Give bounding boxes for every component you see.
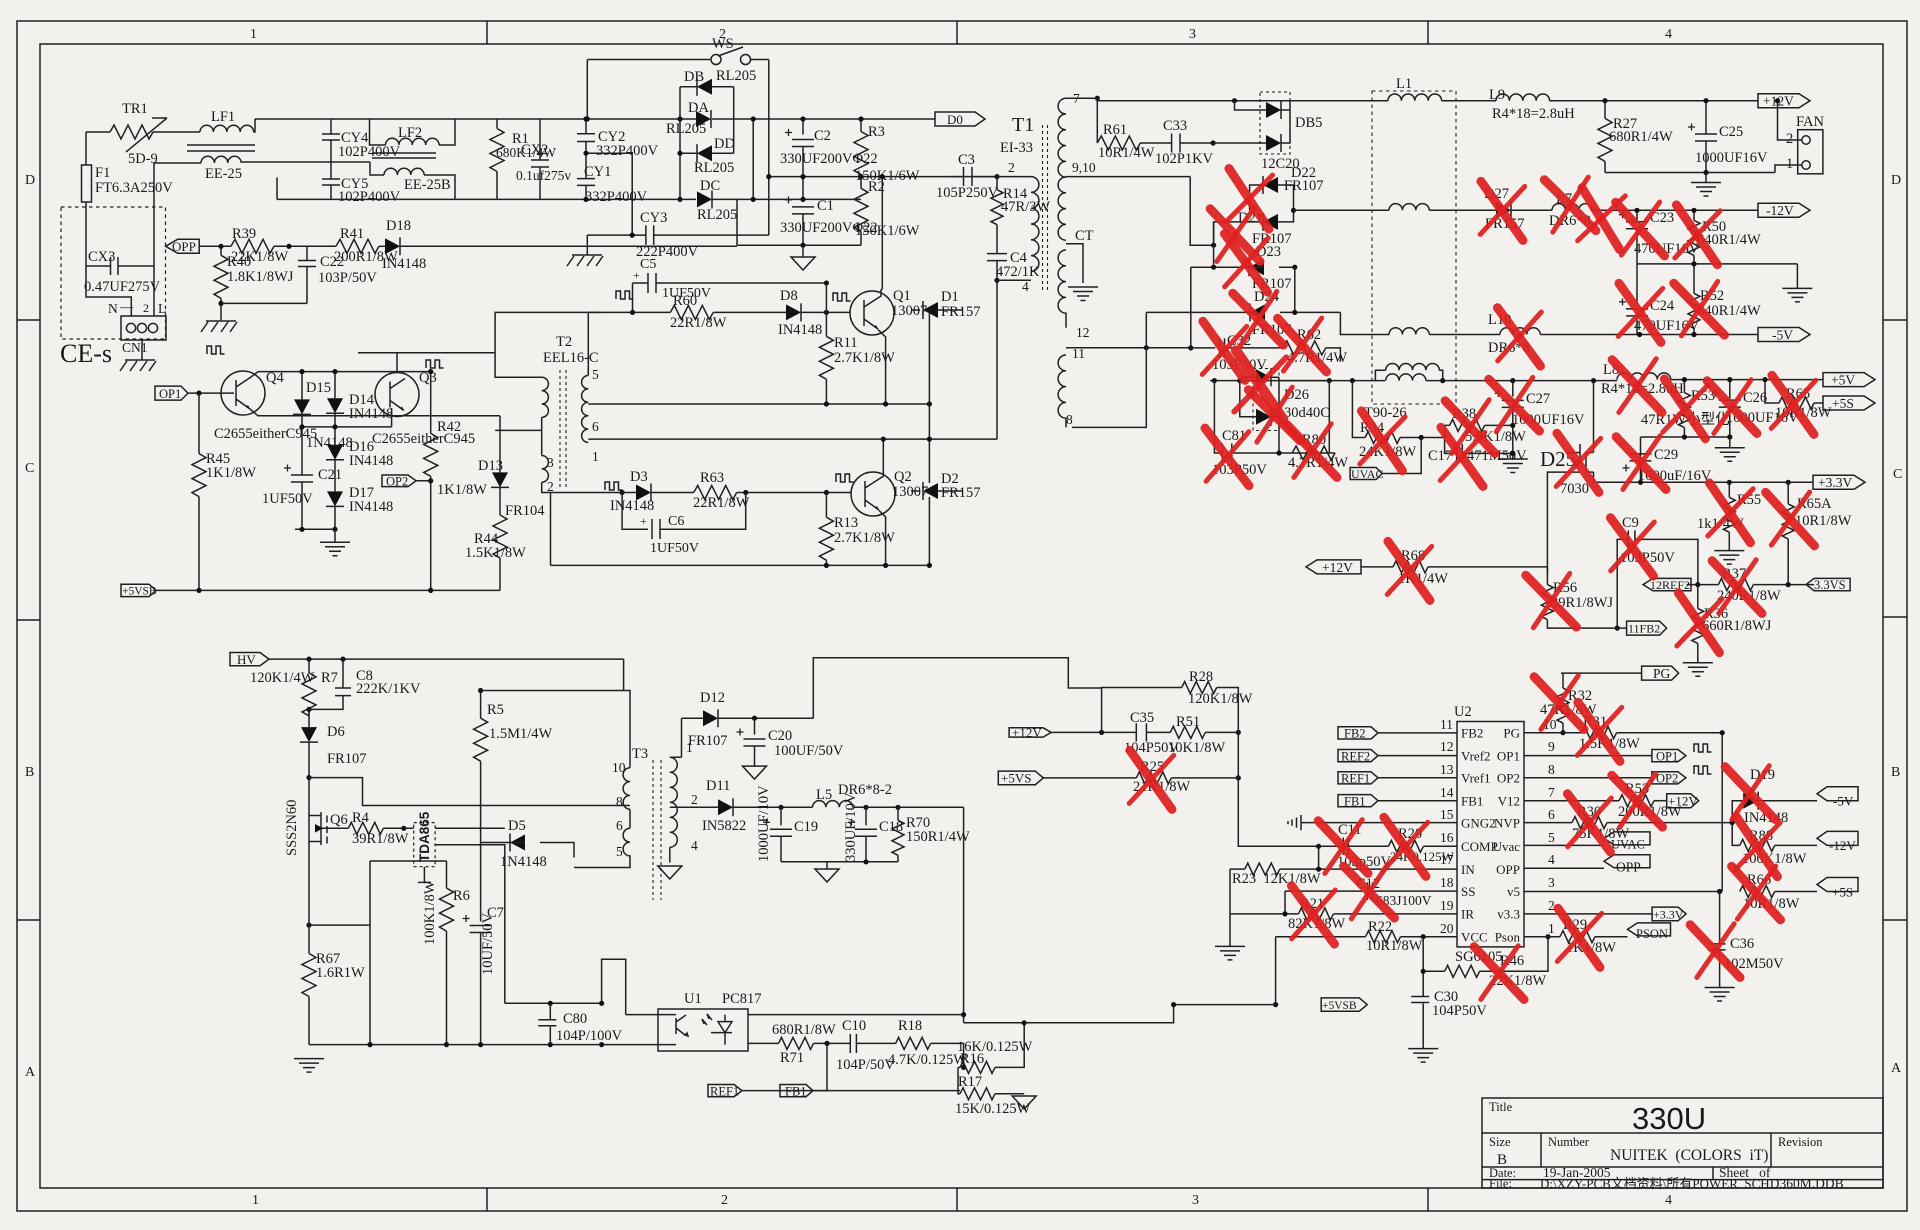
ground C20 bbox=[743, 766, 767, 779]
resistor R2 bbox=[860, 177, 862, 189]
svg-text:16: 16 bbox=[1440, 830, 1454, 845]
x-mark C23 bbox=[1616, 200, 1665, 258]
wire R63 to Q2 base bbox=[737, 492, 851, 494]
+12V rail bbox=[1549, 100, 1758, 102]
ground under D17 bbox=[334, 529, 336, 542]
x-mark D27 bbox=[1477, 181, 1527, 240]
resistor R60 bbox=[670, 305, 713, 319]
flag +5VSB bbox=[1321, 998, 1367, 1011]
svg-text:R71: R71 bbox=[780, 1050, 804, 1066]
diode D23 bbox=[1191, 266, 1247, 268]
cap C6 bbox=[622, 493, 746, 540]
ground CY3 bbox=[586, 235, 588, 255]
x-mark R37 bbox=[1712, 558, 1762, 617]
x-mark D24 bbox=[1233, 289, 1284, 349]
cap C80 bbox=[549, 1003, 551, 1019]
D25 reset path bbox=[1547, 472, 1568, 574]
svg-text:R3: R3 bbox=[868, 124, 885, 140]
resistor R40 bbox=[220, 246, 222, 255]
TDA865 fb row bbox=[435, 845, 505, 1004]
T1 pin4 stub bbox=[997, 279, 1031, 281]
svg-text:4: 4 bbox=[1665, 27, 1672, 42]
x-mark R34 bbox=[1357, 411, 1408, 471]
svg-text:REF2: REF2 bbox=[1341, 749, 1370, 763]
x-mark R36 bbox=[1674, 593, 1725, 653]
svg-text:File:: File: bbox=[1489, 1177, 1512, 1191]
inductor L10 bbox=[1500, 328, 1540, 335]
svg-text:+5VSB: +5VSB bbox=[1322, 1000, 1357, 1012]
cap CY3 bbox=[587, 225, 769, 245]
+5VSB routing bbox=[964, 807, 1025, 1023]
svg-text:IN4148: IN4148 bbox=[778, 322, 822, 338]
wire TR1 to LF1 bbox=[153, 131, 200, 133]
svg-text:680R1/4W: 680R1/4W bbox=[1609, 129, 1673, 145]
IC TDA865 dashed bbox=[414, 823, 435, 867]
dashed box CE-s bbox=[61, 207, 166, 339]
resistor R36 bbox=[1697, 585, 1699, 609]
svg-text:D5: D5 bbox=[508, 818, 526, 834]
resistor R23 bbox=[1230, 868, 1245, 870]
flag +5VSB left bbox=[121, 584, 156, 596]
svg-text:1K1/8W: 1K1/8W bbox=[206, 465, 256, 481]
resistor R68 bbox=[1361, 566, 1393, 568]
x-mark C17 bbox=[1437, 427, 1487, 486]
L1 winding -12V bbox=[1389, 204, 1429, 211]
svg-text:C17: C17 bbox=[1428, 448, 1452, 464]
HV wire bbox=[269, 658, 624, 660]
svg-text:OPP: OPP bbox=[1496, 862, 1520, 877]
diode DD bbox=[680, 152, 697, 154]
svg-text:OP2: OP2 bbox=[1656, 772, 1678, 786]
cap C19 bbox=[780, 807, 782, 825]
LF2 core bars bbox=[372, 153, 436, 158]
lower +12 rail bbox=[1605, 172, 1775, 174]
flag +5VS bbox=[998, 771, 1043, 785]
svg-text:D1: D1 bbox=[941, 289, 959, 305]
svg-text:330UF200VΦ22: 330UF200VΦ22 bbox=[780, 151, 878, 167]
x-mark R65A bbox=[1766, 490, 1815, 548]
svg-text:CX2: CX2 bbox=[521, 142, 548, 158]
resistor R63 bbox=[694, 486, 737, 500]
svg-text:5: 5 bbox=[616, 844, 623, 859]
svg-text:FR107: FR107 bbox=[1284, 178, 1324, 194]
svg-text:150R1/4W: 150R1/4W bbox=[906, 829, 970, 845]
svg-text:12REF2: 12REF2 bbox=[1650, 578, 1690, 592]
svg-text:1000UF16V: 1000UF16V bbox=[1695, 150, 1768, 166]
svg-text:47R/3W: 47R/3W bbox=[1001, 199, 1050, 215]
svg-text:IN4148: IN4148 bbox=[349, 453, 393, 469]
svg-text:IN: IN bbox=[1461, 862, 1475, 877]
svg-text:8: 8 bbox=[616, 794, 623, 809]
svg-text:0.1uf275v: 0.1uf275v bbox=[516, 168, 571, 183]
T1 CT tap bbox=[1066, 244, 1083, 283]
FAN pin1 wire bbox=[1775, 165, 1802, 173]
LF1/EE-25 core bars bbox=[187, 145, 255, 151]
svg-text:L: L bbox=[158, 301, 166, 316]
T1 pin11/12 wire bbox=[1066, 347, 1191, 349]
right PG bus bbox=[1721, 733, 1723, 892]
svg-text:R61: R61 bbox=[1103, 122, 1127, 138]
svg-text:+3.3V: +3.3V bbox=[1653, 907, 1684, 921]
svg-text:CE-s: CE-s bbox=[60, 339, 112, 368]
flag OPP bbox=[166, 239, 200, 253]
svg-text:1.5M1/4W: 1.5M1/4W bbox=[489, 726, 553, 742]
diode DC bbox=[697, 190, 712, 208]
svg-text:+12V: +12V bbox=[1012, 725, 1042, 740]
cap C18 bbox=[865, 807, 867, 825]
T3 secondary 1-2-4 bbox=[670, 718, 682, 757]
svg-text:-5V: -5V bbox=[1772, 328, 1793, 343]
svg-text:FR157: FR157 bbox=[941, 304, 981, 320]
x-mark L7 bbox=[1544, 175, 1596, 236]
svg-text:120K1/8W: 120K1/8W bbox=[1188, 691, 1253, 707]
svg-text:A: A bbox=[25, 1065, 36, 1080]
svg-text:4: 4 bbox=[1548, 852, 1555, 867]
diode D11 bbox=[689, 806, 718, 808]
x-mark R29 bbox=[1554, 908, 1604, 967]
svg-text:+: + bbox=[640, 514, 647, 528]
bottom rail standby bbox=[309, 1044, 658, 1046]
svg-text:14: 14 bbox=[1440, 785, 1454, 800]
svg-text:D0: D0 bbox=[947, 112, 963, 127]
x-mark R46 bbox=[1474, 944, 1524, 1003]
svg-text:R17: R17 bbox=[958, 1074, 982, 1090]
ground under R55 bbox=[1714, 551, 1744, 565]
diode D15 bbox=[301, 372, 303, 400]
inductor EE-25 bbox=[201, 156, 241, 163]
svg-text:3: 3 bbox=[1548, 875, 1555, 890]
flag REF2 bbox=[1338, 750, 1457, 762]
resistor R71 bbox=[779, 1037, 814, 1049]
MOSFET Q6 bbox=[309, 778, 348, 926]
bus D21-D23 bbox=[1213, 222, 1215, 267]
R22 to +5VSB bbox=[1275, 937, 1277, 1005]
diode DA bbox=[696, 110, 711, 128]
svg-text:R18: R18 bbox=[898, 1018, 922, 1034]
pin7 V12 / resistor R53b bbox=[1524, 800, 1619, 802]
optocoupler U1 PC817 bbox=[658, 1009, 748, 1051]
resistor R28 bbox=[1102, 688, 1182, 733]
Q2 collector wire bbox=[882, 439, 883, 477]
svg-text:B: B bbox=[25, 765, 34, 780]
svg-text:1.6R1W: 1.6R1W bbox=[316, 965, 365, 981]
svg-text:REF1: REF1 bbox=[710, 1085, 739, 1099]
T1 winding 11-8 bbox=[1058, 355, 1066, 427]
svg-text:2: 2 bbox=[1008, 160, 1015, 175]
pin9 OP1 flag bbox=[1524, 750, 1686, 762]
svg-text:2: 2 bbox=[721, 1193, 728, 1208]
wire WS left vertical bbox=[586, 60, 588, 120]
svg-text:R42: R42 bbox=[437, 419, 461, 435]
svg-text:R22: R22 bbox=[1368, 919, 1392, 935]
resistor R34 bbox=[1352, 381, 1365, 438]
svg-text:10: 10 bbox=[612, 760, 626, 775]
wire EE-25 left to CN1 line bbox=[154, 162, 201, 164]
TDA865 gnd row bbox=[370, 860, 447, 862]
transistor Q1 bbox=[850, 291, 894, 335]
D12 to +12 feed bbox=[813, 658, 1101, 718]
svg-text:F1: F1 bbox=[95, 165, 110, 181]
inductor LF1 bbox=[200, 125, 254, 132]
svg-text:2: 2 bbox=[1548, 898, 1555, 913]
ground triangle rail bbox=[826, 862, 828, 869]
svg-text:5: 5 bbox=[592, 367, 599, 382]
svg-text:Q6: Q6 bbox=[330, 812, 348, 828]
svg-text:C9: C9 bbox=[1622, 515, 1639, 531]
svg-text:IN4148: IN4148 bbox=[349, 499, 393, 515]
Q2 emitter wire bbox=[879, 511, 886, 566]
bridge output bus bbox=[752, 119, 754, 199]
svg-text:10K1/8W: 10K1/8W bbox=[1168, 740, 1226, 756]
cap C3 bbox=[950, 167, 997, 186]
svg-text:C2: C2 bbox=[814, 128, 831, 144]
inductor LF2 bbox=[370, 119, 386, 145]
cap C10 bbox=[850, 1034, 895, 1053]
svg-text:V12: V12 bbox=[1498, 794, 1520, 809]
svg-text:NVP: NVP bbox=[1494, 815, 1520, 830]
svg-text:7030: 7030 bbox=[1560, 481, 1589, 497]
svg-text:472/1K: 472/1K bbox=[996, 264, 1040, 280]
T1 pin4 to rail bbox=[996, 280, 998, 439]
cap C30 bbox=[1422, 971, 1424, 996]
svg-text:103P/50V: 103P/50V bbox=[318, 270, 377, 286]
x-mark R38 bbox=[1445, 398, 1495, 457]
svg-text:R6: R6 bbox=[453, 888, 470, 904]
svg-text:6: 6 bbox=[592, 419, 599, 434]
pin2 v3.3 flag bbox=[1524, 907, 1686, 921]
ground under C30 bbox=[1408, 1049, 1438, 1063]
T1 secondary mid bbox=[1058, 177, 1066, 240]
resistor R21 bbox=[1230, 913, 1298, 915]
flag -5V bbox=[1758, 328, 1810, 342]
cap C25 bbox=[1705, 101, 1707, 134]
diode D22 bbox=[1260, 184, 1262, 186]
svg-text:+12V: +12V bbox=[1668, 794, 1698, 809]
svg-text:2: 2 bbox=[691, 792, 698, 807]
ground under R36 bbox=[1683, 663, 1713, 677]
svg-text:3: 3 bbox=[1189, 27, 1196, 42]
diode D16 bbox=[326, 445, 344, 460]
bridge left bus bbox=[679, 87, 681, 200]
resistor R53 bbox=[1683, 380, 1685, 393]
svg-text:C3: C3 bbox=[958, 152, 975, 168]
mid bus D15-Q3 bbox=[302, 408, 392, 427]
svg-text:6: 6 bbox=[1548, 807, 1555, 822]
T1 pin8 wire bbox=[1072, 312, 1146, 427]
dual diode D26 dashed box bbox=[1253, 369, 1279, 431]
pin10 PG wire bbox=[1524, 732, 1563, 734]
ground CT bbox=[1068, 287, 1098, 301]
svg-text:100K1/8W: 100K1/8W bbox=[422, 880, 438, 945]
svg-text:11FB2: 11FB2 bbox=[1628, 622, 1660, 636]
svg-text:1: 1 bbox=[592, 449, 599, 464]
resistor R32 bbox=[1562, 673, 1564, 688]
svg-text:REF1: REF1 bbox=[1341, 772, 1370, 786]
x-mark L7b bbox=[1574, 188, 1627, 250]
resistor R14 bbox=[996, 177, 998, 190]
U1 LED bbox=[702, 1014, 732, 1045]
svg-text:RL205: RL205 bbox=[694, 160, 734, 176]
svg-text:IR: IR bbox=[1461, 907, 1474, 922]
inductor L7 bbox=[1552, 204, 1592, 211]
ground triangle under C1 bbox=[802, 245, 804, 257]
resistor R37 bbox=[1718, 579, 1753, 591]
svg-text:D15: D15 bbox=[306, 380, 331, 396]
transistor Q4 bbox=[221, 371, 265, 415]
svg-text:+5S: +5S bbox=[1832, 396, 1854, 411]
svg-text:C25: C25 bbox=[1719, 124, 1743, 140]
resistor R11 bbox=[825, 312, 827, 336]
svg-text:R23 12K1/8W: R23 12K1/8W bbox=[1232, 871, 1321, 887]
resistor R70 bbox=[897, 807, 899, 820]
svg-text:Q4: Q4 bbox=[266, 370, 284, 386]
x-mark R52 bbox=[1674, 279, 1725, 339]
diodes D21 D22 pair bbox=[1190, 177, 1213, 246]
resistor R7 bbox=[308, 659, 310, 673]
cap C2 bbox=[802, 119, 804, 135]
ground GNG2 sideways bbox=[1288, 815, 1457, 830]
resistor R61 bbox=[1096, 98, 1098, 143]
svg-text:1UF50V: 1UF50V bbox=[650, 541, 699, 556]
resistor R25 bbox=[1043, 777, 1136, 779]
T2 right winding lower bbox=[582, 416, 589, 443]
svg-text:C27: C27 bbox=[1526, 391, 1550, 407]
opto feedback path bbox=[505, 959, 626, 1014]
svg-text:D6: D6 bbox=[327, 724, 345, 740]
HV down to T3 bbox=[481, 659, 630, 768]
cap C29 bbox=[1640, 437, 1642, 461]
+5VSB step wire bbox=[1024, 1005, 1275, 1023]
cap CX3 bbox=[86, 257, 154, 275]
Q6 source node bbox=[306, 923, 311, 928]
Q4 emitter bus bbox=[250, 409, 500, 416]
resistor R38 bbox=[1445, 425, 1450, 437]
cap C36 bbox=[1719, 892, 1721, 944]
svg-text:FB2: FB2 bbox=[1344, 727, 1366, 741]
flag D0 bbox=[935, 112, 985, 126]
FAN pin2 wire bbox=[1778, 101, 1802, 140]
cap CX2 bbox=[531, 119, 549, 199]
wire D18 to doubler rail bbox=[400, 245, 737, 247]
ground R40 bbox=[201, 321, 237, 332]
svg-text:13: 13 bbox=[1440, 762, 1454, 777]
wire T2 pin2 to D3 bbox=[542, 482, 622, 492]
T2 left winding upper bbox=[495, 312, 600, 377]
diode D18 bbox=[385, 237, 400, 255]
fb bus down to COMP bbox=[1238, 732, 1318, 846]
svg-text:EE-25B: EE-25B bbox=[404, 177, 451, 193]
wire UVAC to R34 bbox=[1382, 438, 1421, 474]
x-mark D25 bbox=[1553, 433, 1603, 492]
D26 output bus bbox=[1279, 377, 1329, 453]
thermistor TR1 bbox=[110, 125, 153, 139]
junction dots bridge bbox=[677, 116, 682, 121]
Q1 collector wire bbox=[881, 177, 882, 297]
cap CY5 bbox=[322, 162, 340, 199]
svg-text:NUITEK (COLORS iT): NUITEK (COLORS iT) bbox=[1610, 1147, 1768, 1164]
x-mark C36 bbox=[1690, 922, 1740, 981]
resistor R42 bbox=[430, 372, 432, 434]
flag -12V bbox=[1758, 203, 1810, 217]
x-mark R53 bbox=[1660, 379, 1711, 439]
svg-text:1: 1 bbox=[252, 1193, 259, 1208]
svg-text:R40: R40 bbox=[227, 254, 251, 270]
svg-text:CX3: CX3 bbox=[88, 249, 115, 265]
svg-text:OP1: OP1 bbox=[1656, 749, 1678, 763]
wire R61 to C33 bbox=[1140, 142, 1171, 144]
svg-text:1.8K1/8WJ: 1.8K1/8WJ bbox=[227, 269, 294, 285]
D6 snubber return bbox=[309, 778, 630, 806]
resistor R62 bbox=[1283, 341, 1326, 355]
pin4 OPP flag bbox=[1524, 855, 1650, 869]
svg-text:8: 8 bbox=[1066, 412, 1073, 427]
svg-text:1000UF/10V: 1000UF/10V bbox=[756, 785, 772, 862]
cap C27 bbox=[1512, 381, 1514, 397]
cap C7 bbox=[463, 915, 492, 933]
T1 pin 9,10 wire bbox=[1066, 176, 1190, 178]
svg-text:C35: C35 bbox=[1130, 710, 1154, 726]
cap CY1 bbox=[577, 153, 595, 199]
svg-text:150K1/6W: 150K1/6W bbox=[855, 168, 920, 184]
flag +5S pin3 bbox=[1817, 878, 1858, 892]
rail mid drive bbox=[588, 403, 929, 405]
T1 pin2 stub bbox=[997, 176, 1031, 178]
svg-text:C29: C29 bbox=[1654, 447, 1678, 463]
svg-text:D8: D8 bbox=[780, 288, 798, 304]
svg-text:+: + bbox=[633, 268, 640, 282]
resistor R5 bbox=[480, 691, 482, 719]
svg-text:Q1: Q1 bbox=[893, 288, 911, 304]
inductor EE-25B bbox=[370, 162, 384, 175]
svg-text:12: 12 bbox=[1076, 325, 1090, 340]
svg-text:10UF/50V: 10UF/50V bbox=[480, 912, 496, 975]
gnd stub left bbox=[1229, 869, 1231, 946]
svg-text:Pson: Pson bbox=[1495, 930, 1521, 945]
IC U2 box bbox=[1457, 722, 1524, 947]
svg-text:R63: R63 bbox=[700, 470, 724, 486]
dual diode DB5 dashed box bbox=[1260, 92, 1290, 154]
gnd bus C21/D17 bbox=[295, 528, 335, 530]
schottky D25 bbox=[1568, 444, 1594, 472]
cap CY4 bbox=[322, 119, 340, 162]
x-mark R56 bbox=[1526, 571, 1577, 631]
svg-text:Revision: Revision bbox=[1778, 1135, 1823, 1149]
x-mark D23 bbox=[1222, 234, 1271, 292]
mid rail bbox=[242, 161, 370, 163]
svg-text:FB2: FB2 bbox=[1461, 726, 1483, 741]
svg-text:CN1: CN1 bbox=[122, 340, 148, 355]
diode D8 bbox=[786, 303, 801, 321]
svg-text:20: 20 bbox=[1440, 921, 1454, 936]
x-mark C81 bbox=[1203, 428, 1251, 486]
svg-text:18: 18 bbox=[1440, 875, 1454, 890]
flag +5V bbox=[1823, 373, 1875, 387]
svg-text:R7: R7 bbox=[321, 670, 338, 686]
T3 primary 10-8 bbox=[623, 768, 630, 809]
wire to CN1 bbox=[86, 266, 131, 316]
ground right bbox=[1796, 264, 1798, 289]
svg-text:3: 3 bbox=[547, 455, 554, 470]
svg-text:PG: PG bbox=[1653, 666, 1671, 681]
svg-text:C6: C6 bbox=[668, 514, 684, 529]
svg-text:Size: Size bbox=[1489, 1135, 1511, 1149]
resistor R88 bbox=[1732, 823, 1740, 846]
svg-text:R11: R11 bbox=[834, 335, 858, 351]
svg-text:CT: CT bbox=[1075, 228, 1094, 244]
svg-text:OP2: OP2 bbox=[1497, 771, 1520, 786]
DB5 upper diode bbox=[1235, 101, 1267, 110]
T3 winding 6-5 bbox=[574, 828, 630, 867]
